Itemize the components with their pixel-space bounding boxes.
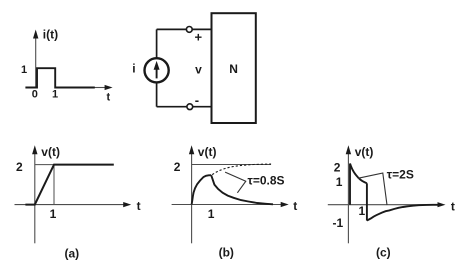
- wire graph-b dotted continuation toward asymptote: [212, 164, 271, 175]
- svg-text:-1: -1: [333, 216, 344, 230]
- svg-text:i(t): i(t): [43, 27, 58, 41]
- wire top rail to node: [157, 28, 187, 30]
- graph-c v-axis arrowhead: [346, 145, 351, 154]
- svg-text:v(t): v(t): [41, 145, 60, 159]
- svg-text:2: 2: [16, 160, 23, 174]
- svg-text:1: 1: [359, 204, 366, 218]
- callout pointer tau=0.8S: [225, 172, 246, 193]
- callout pointer tau=2S: [358, 173, 387, 205]
- wire graph-c drop at t=1: [366, 183, 368, 220]
- svg-text:1: 1: [21, 64, 27, 76]
- svg-text:0: 0: [32, 88, 38, 100]
- wire source top to top rail: [156, 29, 158, 58]
- svg-text:v(t): v(t): [355, 145, 374, 159]
- node i(t) vertical axis: [35, 38, 37, 88]
- node terminal bottom: [187, 104, 193, 110]
- graph-c t-axis arrowhead: [438, 202, 446, 207]
- wire node to box N bottom: [193, 106, 212, 108]
- svg-text:1: 1: [50, 207, 57, 221]
- svg-text:(c): (c): [376, 245, 391, 259]
- wire graph-b rising exponential: [192, 175, 212, 204]
- i(t) axis arrowhead: [33, 30, 38, 39]
- svg-text:τ=0.8S: τ=0.8S: [248, 174, 285, 188]
- current source I1 arrow: [156, 69, 158, 79]
- svg-text:t: t: [137, 199, 141, 213]
- graph-a vertical axis: [34, 153, 36, 244]
- graph-a t=1 reference line: [53, 165, 55, 205]
- wire node to box N top: [192, 28, 211, 30]
- svg-text:v(t): v(t): [198, 145, 217, 159]
- svg-text:t: t: [293, 199, 297, 213]
- svg-text:v: v: [195, 62, 202, 76]
- graph-a v-axis arrowhead: [32, 145, 37, 154]
- graph-b vertical axis: [191, 153, 193, 244]
- graph-b level-2 asymptote line: [192, 164, 271, 166]
- svg-text:τ=2S: τ=2S: [387, 167, 414, 181]
- svg-text:+: +: [195, 30, 203, 45]
- svg-text:(a): (a): [65, 247, 80, 261]
- current source I1 circle: [145, 58, 169, 82]
- svg-text:t: t: [107, 92, 111, 104]
- svg-text:1: 1: [336, 175, 343, 189]
- svg-text:2: 2: [334, 160, 341, 174]
- svg-text:1: 1: [208, 207, 215, 221]
- wire graph-c first decay from 2: [350, 164, 367, 184]
- svg-text:2: 2: [174, 160, 181, 174]
- wire current pulse waveform: [25, 68, 94, 87]
- network N box: [212, 13, 256, 123]
- graph-c horizontal axis: [328, 204, 439, 206]
- t-axis arrowhead: [105, 85, 113, 90]
- wire graph-c initial jump to 2: [349, 164, 351, 205]
- wire graph-b decaying exponential: [211, 175, 273, 204]
- i(t) horizontal t-axis: [95, 87, 108, 89]
- svg-text:i: i: [132, 62, 135, 76]
- wire bottom rail to node: [157, 106, 187, 108]
- graph-a level-2 reference line: [35, 164, 54, 166]
- svg-text:N: N: [229, 62, 238, 76]
- wire source bottom to bottom rail: [156, 82, 158, 106]
- wire graph-c recovery toward zero: [367, 205, 440, 221]
- graph-a t-axis arrowhead: [123, 202, 131, 207]
- graph-b v-axis arrowhead: [189, 145, 194, 154]
- svg-text:-: -: [195, 92, 199, 107]
- graph-c vertical axis: [347, 153, 349, 244]
- svg-text:1: 1: [52, 88, 58, 100]
- graph-b t-axis arrowhead: [281, 202, 289, 207]
- graph-a horizontal axis: [15, 204, 126, 206]
- node terminal top: [186, 27, 192, 33]
- svg-text:t: t: [451, 200, 455, 214]
- wire graph-a v(t) ramp waveform: [25, 165, 113, 205]
- svg-text:(b): (b): [219, 245, 234, 259]
- graph-b horizontal axis: [172, 204, 283, 206]
